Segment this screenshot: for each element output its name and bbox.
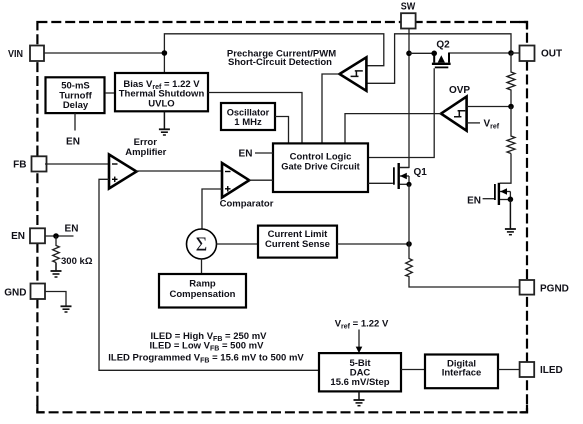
node divider junction [508,104,514,110]
svg-text:OVP: OVP [449,85,470,96]
wire FB to error amplifier - input [45,163,109,165]
label error amplifier [125,137,166,158]
svg-text:SW: SW [401,2,416,13]
label Q1 [414,167,428,178]
pin GND [4,284,45,300]
ground below DAC [354,391,365,405]
svg-text:EN: EN [239,149,253,160]
pin OUT [520,46,563,62]
pin PGND [520,280,569,295]
svg-text:EN: EN [66,137,80,148]
comparator U3 OVP [441,97,467,131]
wire control logic to Q2 gate handled above; wire control logic to Q1 gate [368,182,393,184]
svg-text:EN: EN [11,231,25,242]
svg-text:EN: EN [467,196,481,207]
label Q2 [436,40,450,51]
label EN (pin net) [65,224,79,235]
svg-text:VIN: VIN [8,49,23,60]
node OUT junction [508,50,514,56]
wire current sense to Q1 source node [337,243,409,245]
wire OUT node to OUT pin [511,52,519,54]
wire oscillator to control logic top [275,117,289,144]
ground below bias block [159,111,170,135]
wire comparator output to control logic [249,179,273,181]
svg-text:Compensation: Compensation [170,289,236,300]
wire error amp + input feedback from DAC [99,179,319,370]
block bias/thermal shutdown/UVLO [115,73,208,111]
op-amp error amplifier [109,155,137,189]
pin VIN [8,46,44,62]
label OVP [449,85,470,96]
svg-text:Q2: Q2 [436,40,450,51]
pin SW [401,2,416,29]
wire VIN-sense up and across to precharge + input [164,34,383,66]
svg-text:ILED: ILED [540,365,563,376]
wire Q1 source to sense node [408,184,410,244]
wire GND pin to ground [45,292,66,307]
node SW junction [406,51,412,57]
wire EN pin stub [45,235,74,237]
svg-text:OUT: OUT [541,49,562,60]
node EN junction [53,233,59,239]
block 5-bit DAC [319,353,401,391]
pin FB [13,156,46,171]
label 300 kOhm [61,256,93,267]
resistor 300 kOhm [53,236,60,263]
wire digital interface to ILED pin [498,369,519,371]
ground at GND pin [61,306,72,312]
label EN (delay enable) [66,137,80,148]
svg-text:Current Sense: Current Sense [265,239,330,250]
svg-text:Σ: Σ [196,234,208,256]
wire precharge output to control logic top [322,74,340,143]
node sense junction [406,241,412,247]
wire bias output to control logic top [208,93,302,144]
svg-text:ILED = Low VFB = 500 mV: ILED = Low VFB = 500 mV [150,340,265,352]
block ramp compensation [159,274,246,308]
wire delay to bias block [105,92,115,94]
svg-text:Gate Drive Circuit: Gate Drive Circuit [281,162,360,173]
wire EN stub below delay block [74,113,76,130]
svg-text:EN: EN [65,224,79,235]
svg-text:PGND: PGND [540,284,569,295]
svg-text:Interface: Interface [442,368,482,379]
wire error amp output to comparator - input [136,170,222,172]
block current limit / current sense [258,226,337,258]
comparator U2 precharge/short-circuit detection [340,57,367,91]
resistor sense [406,244,520,287]
block oscillator 1 MHz [221,103,275,130]
transistor Q1 [394,163,412,189]
wire precharge - input to OUT node top run [367,34,511,84]
wire VIN to bias node [44,52,164,54]
summer sigma [187,229,217,259]
wire SW line down to Q1 drain [400,29,410,168]
wire OVP + input from divider node [467,106,511,108]
label Vref = 1.22 V [335,318,389,330]
ground below EN pulldown [505,199,516,234]
svg-text:GND: GND [4,288,26,299]
label Vref (OVP reference) [484,119,500,131]
wire Q2 drain to OUT node [449,52,511,54]
pin EN [11,228,45,243]
wire summer to ramp compensation [201,259,203,274]
label ILED high [150,331,267,343]
wire Vref arrow into DAC [356,330,363,354]
block control logic gate drive circuit [273,143,368,192]
block 50-mS turnoff delay [46,77,105,113]
wire OVP - input Vref stub [467,122,480,124]
wire DAC to digital interface [401,369,425,371]
wire OVP output to control logic top [345,114,441,143]
svg-text:Amplifier: Amplifier [125,147,166,158]
wire comparator + input from summer [202,189,222,229]
node junction at VIN tap [162,50,168,56]
svg-text:UVLO: UVLO [148,98,174,109]
wire SW node to Q2 source [409,52,434,54]
transistor Q2 [431,51,450,68]
svg-text:Comparator: Comparator [220,199,274,210]
label ILED low [150,340,265,352]
ground below 300k resistor [51,263,62,278]
wire EN to control logic [255,152,273,154]
label EN (control logic) [239,149,253,160]
svg-text:Delay: Delay [63,100,89,111]
block digital interface [425,355,498,389]
svg-text:300 kΩ: 300 kΩ [61,256,93,267]
label EN (pulldown gate) [467,196,481,207]
transistor EN pulldown (right) [483,183,514,205]
svg-text:1 MHz: 1 MHz [234,117,262,128]
comparator PWM [222,163,249,198]
label ILED programmed [108,353,304,365]
svg-text:Q1: Q1 [414,167,428,178]
wire summer to current limit block [217,243,259,245]
resistor R2 OVP divider bottom [507,107,515,154]
IC boundary dashed border [37,22,527,412]
label precharge text [227,49,336,68]
wire divider bottom to EN pulldown FET drain [500,154,511,184]
pin ILED [520,362,563,377]
wire node to bias box top [163,53,165,72]
svg-text:FB: FB [13,160,26,171]
svg-text:Short-Circuit Detection: Short-Circuit Detection [228,57,332,68]
label comparator [220,199,274,210]
resistor R1 OVP divider top [507,53,515,107]
svg-text:15.6 mV/Step: 15.6 mV/Step [330,377,389,388]
wire Q2 gate to control logic [368,68,434,157]
